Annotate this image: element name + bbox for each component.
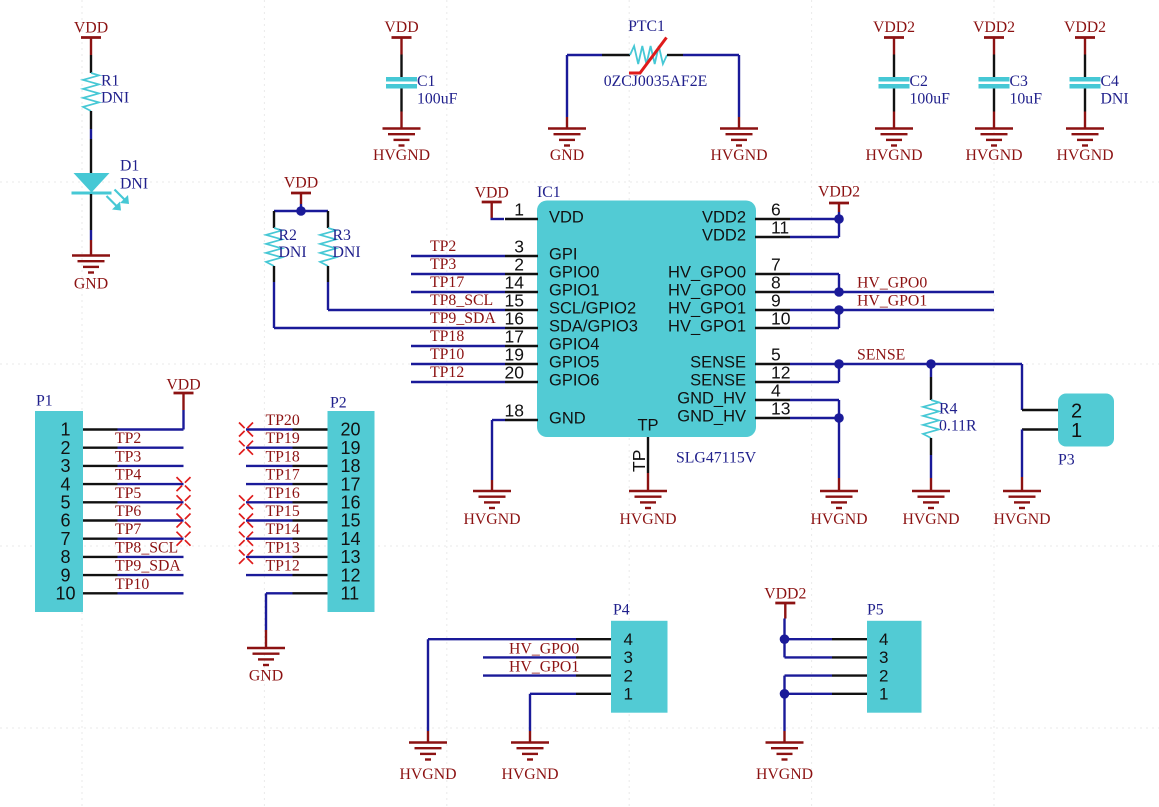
svg-text:HV_GPO0: HV_GPO0 [857,275,927,292]
svg-text:VDD2: VDD2 [702,227,746,245]
svg-text:TP: TP [637,417,658,435]
svg-text:VDD2: VDD2 [973,19,1015,36]
svg-text:GND: GND [549,410,586,428]
svg-text:1: 1 [1071,420,1082,442]
svg-text:TP17: TP17 [430,274,464,291]
svg-text:17: 17 [505,327,524,347]
svg-text:PTC1: PTC1 [628,18,665,35]
svg-text:VDD: VDD [74,20,108,37]
svg-text:SCL/GPIO2: SCL/GPIO2 [549,300,636,318]
svg-text:TP4: TP4 [115,467,141,484]
svg-text:R1: R1 [101,73,119,90]
svg-text:DNI: DNI [120,176,148,193]
svg-text:P3: P3 [1058,452,1075,469]
svg-text:3: 3 [879,648,888,667]
svg-text:HV_GPO1: HV_GPO1 [668,318,746,336]
svg-text:TP2: TP2 [430,238,456,255]
svg-text:16: 16 [341,493,361,513]
svg-text:13: 13 [341,547,361,567]
svg-text:9: 9 [60,565,70,585]
svg-text:VDD: VDD [475,185,509,202]
svg-text:10: 10 [55,584,75,604]
svg-text:VDD2: VDD2 [818,184,860,201]
svg-text:VDD2: VDD2 [764,586,806,603]
svg-text:HV_GPO0: HV_GPO0 [668,282,746,300]
svg-text:TP14: TP14 [266,521,300,538]
svg-text:19: 19 [505,345,524,365]
svg-text:P1: P1 [36,393,53,410]
svg-text:C4: C4 [1101,73,1120,90]
svg-text:GPIO5: GPIO5 [549,354,599,372]
svg-text:5: 5 [771,345,781,365]
svg-text:DNI: DNI [333,244,361,261]
svg-text:14: 14 [341,529,361,549]
svg-text:4: 4 [60,474,70,494]
svg-text:SENSE: SENSE [857,347,905,364]
svg-text:TP6: TP6 [115,503,141,520]
svg-text:TP: TP [629,450,649,472]
svg-text:TP17: TP17 [266,467,300,484]
svg-text:HVGND: HVGND [619,511,676,528]
svg-text:HVGND: HVGND [965,147,1022,164]
svg-text:R3: R3 [333,227,352,244]
svg-text:TP3: TP3 [430,256,456,273]
svg-text:VDD: VDD [549,209,584,227]
svg-text:TP8_SCL: TP8_SCL [115,539,178,556]
svg-text:TP12: TP12 [266,558,300,575]
svg-text:4: 4 [879,630,888,649]
svg-text:TP9_SDA: TP9_SDA [115,558,181,575]
svg-text:1: 1 [624,685,633,704]
svg-text:TP2: TP2 [115,430,141,447]
svg-text:D1: D1 [120,158,139,175]
svg-text:8: 8 [771,273,781,293]
svg-text:HVGND: HVGND [902,511,959,528]
svg-text:4: 4 [624,630,633,649]
svg-text:7: 7 [60,529,70,549]
svg-text:5: 5 [60,493,70,513]
svg-text:12: 12 [341,565,361,585]
svg-text:HVGND: HVGND [1056,147,1113,164]
svg-text:VDD2: VDD2 [873,19,915,36]
svg-text:HV_GPO0: HV_GPO0 [509,640,579,657]
svg-text:100uF: 100uF [910,91,951,108]
svg-text:10uF: 10uF [1010,91,1043,108]
svg-text:DNI: DNI [1101,91,1129,108]
svg-text:2: 2 [60,438,70,458]
svg-text:SDA/GPIO3: SDA/GPIO3 [549,318,638,336]
svg-text:TP10: TP10 [430,346,464,363]
svg-text:TP18: TP18 [266,448,300,465]
svg-text:VDD2: VDD2 [702,209,746,227]
svg-text:TP3: TP3 [115,448,141,465]
svg-text:VDD: VDD [284,175,318,192]
svg-text:TP9_SDA: TP9_SDA [430,310,496,327]
svg-text:SENSE: SENSE [690,372,746,390]
svg-text:TP13: TP13 [266,539,300,556]
svg-text:2: 2 [514,255,524,275]
svg-text:VDD: VDD [166,377,200,394]
svg-text:12: 12 [771,363,790,383]
svg-text:HV_GPO1: HV_GPO1 [857,293,927,310]
svg-text:20: 20 [341,420,361,440]
svg-text:TP8_SCL: TP8_SCL [430,292,493,309]
svg-text:6: 6 [771,200,781,220]
svg-text:HVGND: HVGND [463,511,520,528]
svg-text:19: 19 [341,438,361,458]
svg-text:GND: GND [74,276,108,293]
svg-text:HVGND: HVGND [810,511,867,528]
svg-text:1: 1 [879,685,888,704]
svg-text:TP18: TP18 [430,328,464,345]
svg-text:DNI: DNI [101,90,129,107]
svg-text:20: 20 [505,363,525,383]
svg-text:VDD: VDD [384,19,418,36]
svg-text:HV_GPO1: HV_GPO1 [509,659,579,676]
svg-text:GND: GND [550,147,584,164]
svg-text:16: 16 [505,309,524,329]
svg-text:18: 18 [341,456,361,476]
svg-text:7: 7 [771,255,781,275]
svg-text:R2: R2 [279,227,298,244]
svg-text:11: 11 [771,218,789,238]
svg-text:IC1: IC1 [537,184,561,201]
svg-text:2: 2 [624,666,633,685]
svg-text:6: 6 [60,511,70,531]
svg-text:VDD2: VDD2 [1064,19,1106,36]
svg-text:3: 3 [624,648,633,667]
svg-text:15: 15 [505,291,524,311]
svg-text:1: 1 [60,420,70,440]
svg-text:9: 9 [771,291,781,311]
svg-text:TP7: TP7 [115,521,141,538]
svg-text:C2: C2 [910,73,929,90]
svg-text:GND_HV: GND_HV [677,390,746,408]
svg-text:R4: R4 [939,401,958,418]
svg-text:HVGND: HVGND [710,147,767,164]
svg-text:TP5: TP5 [115,485,141,502]
svg-text:C1: C1 [417,73,435,90]
svg-text:3: 3 [60,456,70,476]
svg-text:P4: P4 [613,602,630,619]
svg-text:TP19: TP19 [266,430,300,447]
svg-text:10: 10 [771,309,791,329]
svg-text:GND: GND [249,668,283,685]
svg-text:1: 1 [514,200,524,220]
svg-text:3: 3 [514,237,524,257]
svg-text:DNI: DNI [279,244,307,261]
svg-text:HV_GPO1: HV_GPO1 [668,300,746,318]
svg-text:HV_GPO0: HV_GPO0 [668,264,746,282]
svg-text:15: 15 [341,511,361,531]
svg-text:HVGND: HVGND [993,511,1050,528]
svg-text:13: 13 [771,399,790,419]
svg-text:100uF: 100uF [417,91,458,108]
svg-text:HVGND: HVGND [501,766,558,783]
svg-text:GPIO0: GPIO0 [549,264,599,282]
svg-text:GND_HV: GND_HV [677,408,746,426]
svg-text:SLG47115V: SLG47115V [676,450,757,467]
svg-text:HVGND: HVGND [865,147,922,164]
svg-text:TP16: TP16 [266,485,300,502]
svg-text:TP20: TP20 [266,412,300,429]
svg-text:HVGND: HVGND [399,766,456,783]
svg-text:11: 11 [341,584,360,604]
svg-text:17: 17 [341,474,361,494]
svg-text:GPI: GPI [549,246,577,264]
svg-text:TP12: TP12 [430,364,464,381]
svg-text:GPIO4: GPIO4 [549,336,599,354]
svg-text:TP15: TP15 [266,503,300,520]
svg-text:GPIO1: GPIO1 [549,282,599,300]
svg-text:P2: P2 [330,395,347,412]
svg-text:HVGND: HVGND [373,147,430,164]
svg-text:4: 4 [771,381,781,401]
svg-text:18: 18 [505,401,524,421]
svg-text:SENSE: SENSE [690,354,746,372]
svg-text:HVGND: HVGND [756,766,813,783]
svg-text:P5: P5 [867,602,884,619]
svg-text:C3: C3 [1010,73,1029,90]
svg-text:GPIO6: GPIO6 [549,372,599,390]
svg-text:0ZCJ0035AF2E: 0ZCJ0035AF2E [604,73,708,90]
svg-text:8: 8 [60,547,70,567]
svg-text:0.11R: 0.11R [939,418,977,435]
svg-text:2: 2 [879,666,888,685]
svg-text:14: 14 [505,273,525,293]
svg-text:TP10: TP10 [115,576,149,593]
